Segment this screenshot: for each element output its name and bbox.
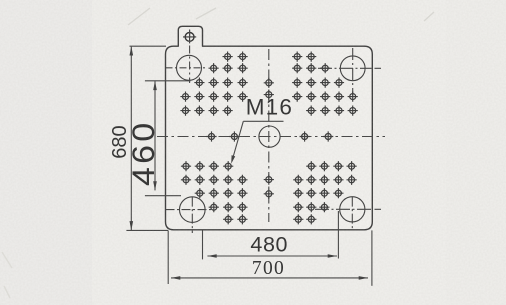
dimension 680 extension line top bbox=[130, 45, 167, 47]
dimension 480 line bbox=[207, 255, 337, 257]
tab vertical centerline bbox=[189, 30, 191, 84]
dimension 680 extension line bottom bbox=[126, 229, 168, 231]
dimension 480 arrow left bbox=[207, 254, 216, 258]
dimension 680 arrow down bbox=[130, 221, 134, 230]
horizontal centerline bbox=[157, 136, 385, 138]
M16 leader underline bbox=[243, 120, 283, 122]
tapped holes on horizontal centerline bbox=[206, 131, 333, 141]
M16 leader arrowhead bbox=[231, 155, 235, 164]
M16 leader line bbox=[232, 121, 243, 159]
dimension 480 arrow right bbox=[328, 254, 337, 258]
tab hole bbox=[183, 30, 196, 43]
dimension 460 line bbox=[154, 81, 156, 190]
tapped hole grid top-right quadrant bbox=[292, 52, 358, 116]
dimension 460 arrow up bbox=[153, 81, 157, 90]
dimension 460 extension line top bbox=[145, 80, 191, 82]
dimension 700 arrow right bbox=[359, 276, 368, 280]
dimension 680 arrow up bbox=[130, 46, 134, 55]
tie-bar hole top-right bbox=[318, 48, 381, 96]
tapped hole grid bottom-left quadrant bbox=[181, 161, 248, 224]
dimension 680 line bbox=[130, 47, 132, 230]
dimension 480 extension line left bbox=[202, 230, 204, 259]
tie-bar hole bottom-right bbox=[315, 197, 381, 230]
dimension 460 arrow down bbox=[153, 181, 157, 190]
tie-bar hole bottom-left bbox=[166, 197, 214, 233]
vertical centerline bbox=[268, 49, 270, 222]
dimension 700 extension line left bbox=[167, 230, 169, 284]
dimension 480 extension line right bbox=[337, 211, 339, 259]
dimension 460 extension line bottom bbox=[145, 195, 181, 197]
tapped hole grid bottom-right quadrant bbox=[293, 161, 357, 224]
scan artifact marks bbox=[128, 8, 434, 25]
dimension 700 arrow left bbox=[171, 276, 180, 280]
center locating hole bbox=[259, 126, 280, 147]
platen plate outline with lifting tab bbox=[166, 26, 373, 230]
tie-bar hole top-left bbox=[166, 55, 206, 80]
tapped hole grid top-left quadrant bbox=[180, 52, 247, 116]
dimension 700 extension line right bbox=[371, 230, 373, 285]
tapped holes on vertical centerline bbox=[264, 78, 274, 199]
dimension 700 line bbox=[171, 277, 368, 279]
